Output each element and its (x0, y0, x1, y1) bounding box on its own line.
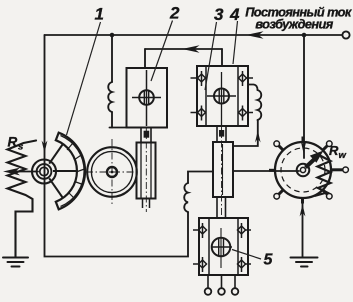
svg-text:w: w (339, 150, 347, 161)
svg-text:4: 4 (229, 5, 240, 24)
svg-text:s: s (18, 142, 23, 153)
svg-text:1: 1 (95, 5, 104, 24)
svg-text:возбуждения: возбуждения (255, 17, 333, 32)
svg-text:R: R (8, 135, 18, 150)
svg-text:3: 3 (214, 5, 224, 24)
svg-text:R: R (329, 143, 339, 158)
svg-text:5: 5 (264, 252, 274, 269)
svg-text:2: 2 (169, 4, 180, 23)
